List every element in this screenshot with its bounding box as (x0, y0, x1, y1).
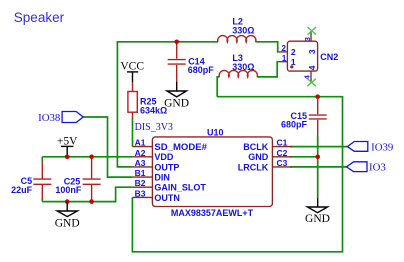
pin C1 BCLK (243, 138, 292, 152)
connector CN2 (279, 31, 339, 83)
svg-text:A1: A1 (135, 138, 146, 148)
port IO38 (38, 112, 83, 124)
no-connect X pin3 (308, 27, 317, 35)
wire OUTN net: B3 down, across bottom, up right side, across to L3 (132, 97, 342, 252)
svg-text:680pF: 680pF (281, 120, 308, 130)
wire R25 to A1 SD_MODE# (132, 119, 134, 147)
wire L3 left lead down to OUTN net (217, 77, 219, 97)
svg-text:330Ω: 330Ω (232, 26, 254, 36)
svg-text:GND: GND (248, 152, 269, 162)
wire C5 top stub (41, 157, 43, 162)
svg-text:680pF: 680pF (188, 65, 215, 75)
pin B2 GAIN_SLOT (132, 178, 206, 192)
power +5V (57, 135, 78, 156)
svg-text:4: 4 (307, 65, 317, 70)
svg-text:B3: B3 (135, 188, 146, 198)
svg-text:IO3: IO3 (369, 162, 386, 174)
svg-text:DIN: DIN (154, 173, 170, 183)
svg-text:U10: U10 (207, 127, 224, 137)
VCC power symbol (120, 61, 144, 82)
pin 2 of CN2 (279, 51, 288, 53)
ground below C15 (305, 198, 330, 225)
junction +5V rail (65, 155, 70, 160)
svg-text:VCC: VCC (120, 61, 144, 73)
svg-text:C2: C2 (277, 148, 288, 158)
svg-text:SD_MODE#: SD_MODE# (154, 142, 207, 152)
ground below C5/C25 rail (55, 202, 80, 230)
svg-text:GND: GND (55, 217, 80, 229)
wire L3 right to CN2 pin1 (257, 62, 279, 77)
svg-text:634kΩ: 634kΩ (140, 106, 167, 116)
wire +5V rail to A2 VDD (42, 156, 132, 158)
svg-text:1: 1 (282, 54, 287, 63)
capacitor C25 (55, 157, 100, 202)
svg-text:Speaker: Speaker (14, 10, 65, 25)
resistor R25 (128, 82, 167, 119)
svg-text:C1: C1 (277, 138, 288, 148)
capacitor C5 (11, 161, 51, 200)
svg-text:VDD: VDD (154, 152, 174, 162)
pin 1 of CN2 (279, 61, 288, 63)
inductor L2 (218, 17, 256, 42)
svg-text:DIS_3V3: DIS_3V3 (135, 122, 173, 133)
svg-text:+5V: +5V (57, 135, 78, 147)
svg-text:OUTP: OUTP (154, 162, 179, 172)
ground below C14 (164, 82, 189, 109)
junction GND rail stub (65, 199, 70, 204)
junction C2 GND / C15 bottom (315, 155, 320, 160)
pin1 marker dot (290, 65, 293, 68)
capacitor C14 (168, 42, 215, 82)
pin C3 LRCLK (238, 158, 293, 172)
svg-text:A2: A2 (135, 148, 146, 158)
capacitor C15 (281, 97, 327, 136)
svg-text:C3: C3 (277, 158, 288, 168)
inductor L3 (219, 53, 257, 77)
svg-text:LRCLK: LRCLK (238, 162, 269, 172)
op-amp U10 MAX98357AEWL+T (152, 127, 272, 218)
svg-text:CN2: CN2 (320, 52, 338, 62)
junction OUTN wire / C15 top (315, 94, 320, 99)
svg-text:3: 3 (303, 37, 312, 41)
svg-text:22uF: 22uF (11, 185, 33, 195)
wire L2 right to CN2 pin2 (256, 42, 279, 52)
pin B3 OUTN (132, 188, 180, 202)
svg-text:2: 2 (282, 44, 287, 53)
wire IO38 to DIN B1 (83, 117, 132, 177)
wire C3 LRCLK to IO3 (290, 166, 347, 168)
svg-text:B1: B1 (135, 168, 146, 178)
junction C25 bottom (89, 199, 94, 204)
svg-text:GND: GND (164, 97, 189, 109)
pin 4 of CN2 (bottom) (310, 71, 312, 83)
svg-text:GAIN_SLOT: GAIN_SLOT (154, 183, 206, 193)
svg-text:GND: GND (305, 213, 330, 225)
svg-text:BCLK: BCLK (243, 142, 268, 152)
wire C2 GND to C15 net (290, 156, 318, 158)
pin C2 GND (248, 148, 292, 162)
svg-text:330Ω: 330Ω (232, 62, 254, 72)
junction C25 top (89, 155, 94, 160)
wire OUTP net: U10 A3 left, up, across top to L2 (117, 42, 218, 167)
pin A3 OUTP (132, 158, 179, 172)
pin A1 SD_MODE# (132, 138, 207, 152)
svg-text:100nF: 100nF (55, 185, 82, 195)
junction top wire / C14 (174, 40, 179, 45)
svg-text:MAX98357AEWL+T: MAX98357AEWL+T (171, 208, 254, 218)
svg-text:B2: B2 (135, 178, 146, 188)
svg-text:IO39: IO39 (371, 141, 393, 153)
pin 3 of CN2 (top) (310, 31, 312, 41)
svg-text:A3: A3 (135, 158, 146, 168)
svg-text:IO38: IO38 (38, 112, 60, 124)
wire GND rail bottom to B2 GAIN_SLOT (42, 187, 132, 201)
port IO39 (347, 141, 393, 153)
wire C15 bottom to GND junction (317, 136, 319, 198)
port IO3 (347, 162, 386, 174)
pin B1 DIN (132, 168, 170, 182)
svg-text:2: 2 (291, 47, 296, 57)
pin A2 VDD (132, 148, 174, 162)
wire C5 bottom stub (41, 199, 43, 202)
svg-text:3: 3 (307, 49, 317, 54)
no-connect X pin4 (307, 79, 316, 87)
svg-text:OUTN: OUTN (154, 193, 180, 203)
wire C1 BCLK to IO39 (290, 146, 347, 148)
